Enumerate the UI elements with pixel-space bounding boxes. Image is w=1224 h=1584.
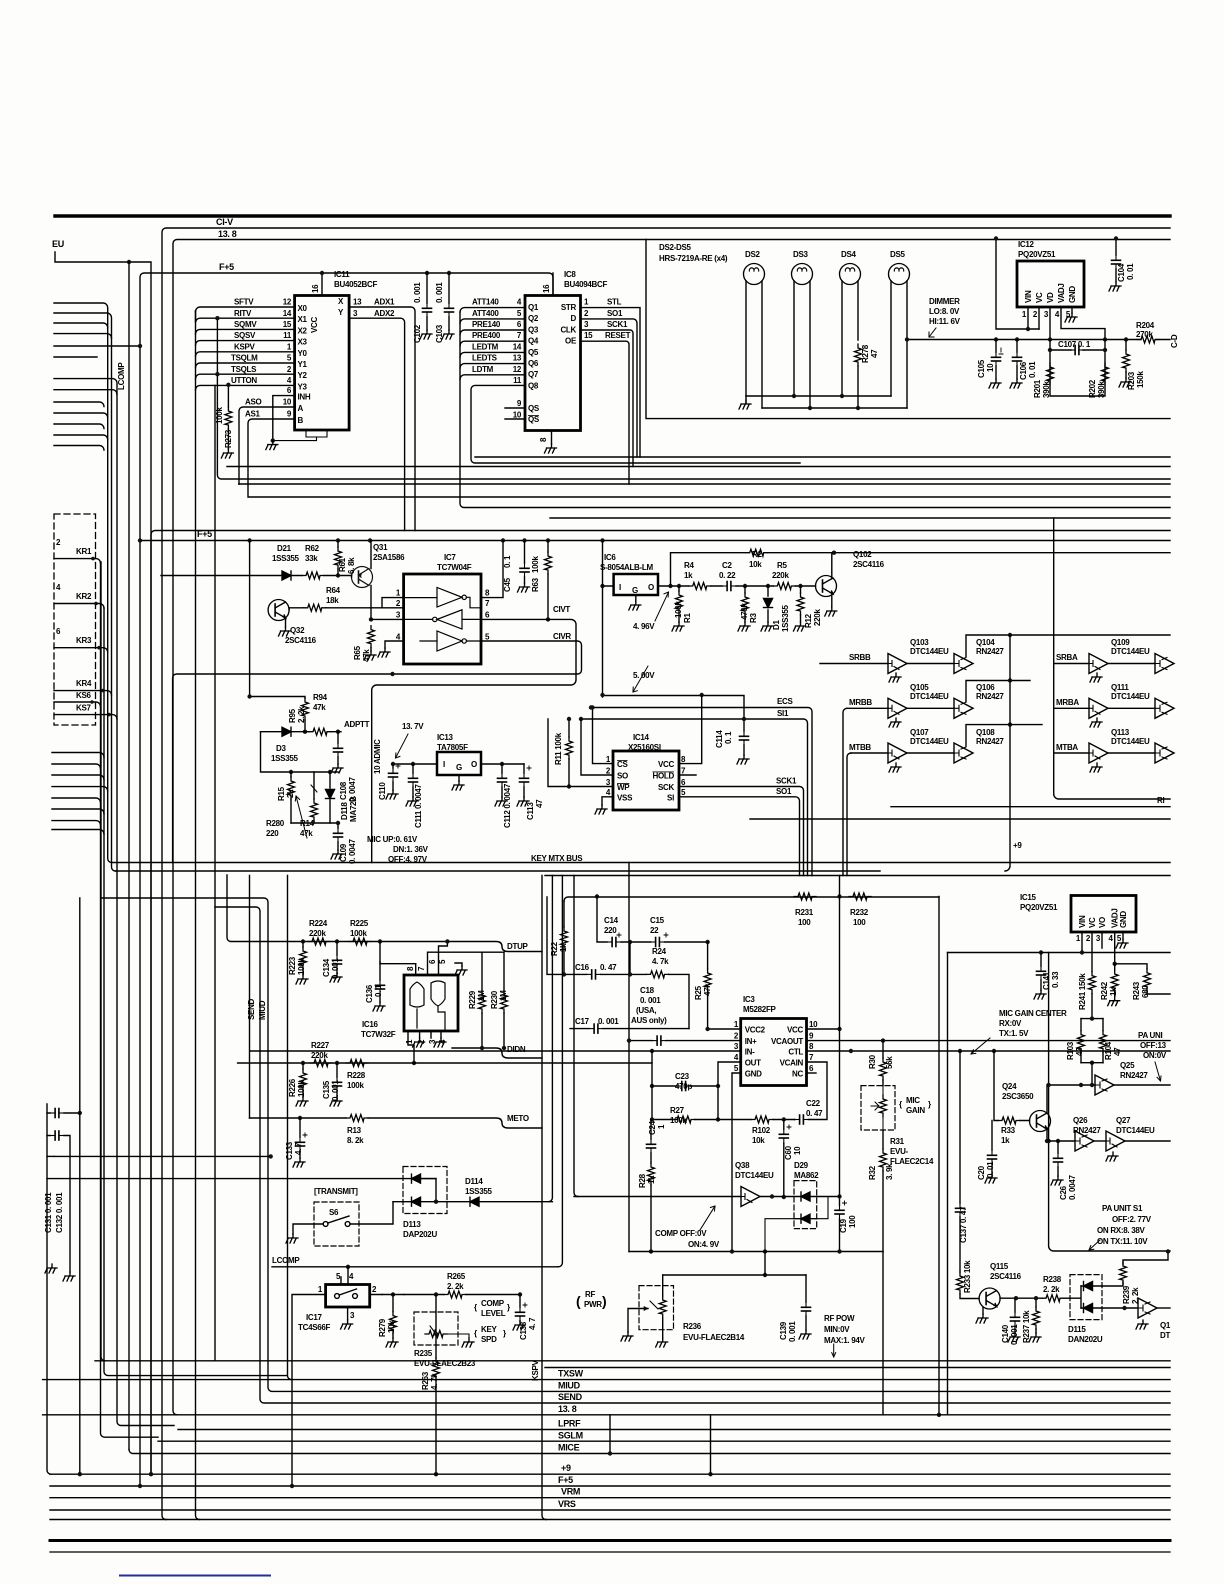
svg-text:C23: C23 <box>675 1072 690 1081</box>
IC12 labels <box>977 240 1179 398</box>
svg-text:10k: 10k <box>749 560 762 569</box>
svg-text:0. 47: 0. 47 <box>806 1109 823 1118</box>
svg-text:2SC4116: 2SC4116 <box>990 1272 1022 1281</box>
IC3 labels <box>638 995 934 1249</box>
svg-text:IC14: IC14 <box>633 733 650 742</box>
svg-text:6. 8k: 6. 8k <box>347 557 356 574</box>
svg-text:DAN202U: DAN202U <box>1068 1335 1103 1344</box>
svg-text:EVU-FLAEC2B23: EVU-FLAEC2B23 <box>414 1359 476 1368</box>
vertical SEND column <box>214 385 216 1360</box>
thick bottom line <box>50 1539 1170 1542</box>
svg-text:EVU-FLAEC2B14: EVU-FLAEC2B14 <box>683 1333 745 1342</box>
IC3 M5282FP <box>741 1019 807 1086</box>
svg-text:C24: C24 <box>648 1120 657 1135</box>
svg-text:VC: VC <box>1035 292 1044 303</box>
svg-text:FLAEC2C14: FLAEC2C14 <box>890 1157 934 1166</box>
diode D1 1SS355 <box>767 586 769 622</box>
svg-text:RX:0V: RX:0V <box>999 1019 1022 1028</box>
svg-text:R225: R225 <box>350 919 369 928</box>
wire C17 line <box>570 1028 689 1030</box>
svg-text:C18: C18 <box>640 986 655 995</box>
svg-text:AUS only): AUS only) <box>631 1016 667 1025</box>
svg-text:G: G <box>456 763 462 772</box>
svg-text:C131 0. 001: C131 0. 001 <box>44 1192 53 1233</box>
resistor R226 100k <box>300 1069 307 1091</box>
svg-text:1SS355: 1SS355 <box>272 554 300 563</box>
inverter B IC7 <box>404 610 481 629</box>
capacitor C105 10 <box>994 337 998 341</box>
svg-text:F+5: F+5 <box>558 1475 573 1485</box>
svg-text:100k: 100k <box>215 407 224 424</box>
wire DTUP line <box>227 875 542 952</box>
wire right bus lines <box>891 806 1170 808</box>
note COMP arrow <box>700 1206 715 1230</box>
svg-text:R30: R30 <box>868 1054 877 1069</box>
svg-text:GAIN: GAIN <box>906 1106 925 1115</box>
svg-text:MIUD: MIUD <box>258 1000 267 1020</box>
resistor R242 1k <box>1113 962 1117 966</box>
svg-text:1SS355: 1SS355 <box>465 1187 493 1196</box>
capacitor C104 0.01 <box>1115 239 1117 283</box>
resistor R202 390k <box>1102 363 1109 385</box>
svg-text:12: 12 <box>283 298 292 307</box>
svg-text:Q109: Q109 <box>1111 638 1130 647</box>
svg-text:1M: 1M <box>477 990 486 1001</box>
svg-text:2SC4116: 2SC4116 <box>853 560 885 569</box>
svg-text:R237 10k: R237 10k <box>1022 1310 1031 1343</box>
svg-text:(USA,: (USA, <box>636 1006 656 1015</box>
svg-text:X1: X1 <box>298 315 308 324</box>
svg-text:R25: R25 <box>694 985 703 1000</box>
svg-text:MIC: MIC <box>906 1096 920 1105</box>
resistor R65 47k <box>368 626 375 648</box>
svg-text:R65: R65 <box>353 645 362 660</box>
svg-text:ON:4. 9V: ON:4. 9V <box>688 1240 720 1249</box>
transistor Q106 RN2427 <box>907 707 954 709</box>
IC16 TC7W32F <box>404 975 458 1031</box>
resistor R224 220k <box>308 938 330 945</box>
svg-text:CLK: CLK <box>560 325 576 334</box>
IC6 S-8054ALB-LM <box>614 574 658 595</box>
svg-text:KR1: KR1 <box>76 547 92 556</box>
svg-text:DTC144EU: DTC144EU <box>735 1171 774 1180</box>
svg-text:R201: R201 <box>1033 379 1042 398</box>
ground under C102 <box>420 330 432 339</box>
svg-text:CS: CS <box>617 760 628 769</box>
svg-text:R231: R231 <box>795 908 814 917</box>
svg-text:OE: OE <box>565 337 577 346</box>
IC11 labels <box>215 270 444 448</box>
svg-text:DTC144EU: DTC144EU <box>1111 692 1150 701</box>
IC16 cluster labels <box>247 919 529 1160</box>
diode D114 1SS355 <box>470 1197 479 1206</box>
svg-text:Q107: Q107 <box>910 728 929 737</box>
svg-text:47: 47 <box>1113 1047 1122 1056</box>
svg-text:47k: 47k <box>703 983 712 996</box>
svg-text:R33: R33 <box>1001 1126 1016 1135</box>
svg-text:RN2427: RN2427 <box>976 692 1004 701</box>
capacitor C114 0.1 <box>743 719 745 755</box>
connector labels KR <box>56 538 92 713</box>
wire SGLM bus <box>158 1440 1170 1442</box>
svg-text:ECS: ECS <box>777 697 794 706</box>
svg-text:100k: 100k <box>297 958 306 975</box>
svg-text:VCC: VCC <box>787 1026 804 1035</box>
svg-text:D1: D1 <box>772 620 781 630</box>
resistor R228 100k <box>346 1060 368 1067</box>
svg-text:WP: WP <box>617 783 630 792</box>
svg-text:R226: R226 <box>288 1078 297 1097</box>
svg-text:LCOMP: LCOMP <box>117 362 126 390</box>
wire bus line 1367 <box>545 1367 1170 1369</box>
resistor R13 8.2k <box>346 1115 368 1122</box>
svg-text:TA7805F: TA7805F <box>437 743 468 752</box>
svg-text:0. 001: 0. 001 <box>331 1080 340 1101</box>
svg-text:HI:11. 6V: HI:11. 6V <box>929 317 961 326</box>
svg-text:TXSW: TXSW <box>558 1369 584 1379</box>
transistor Q109 DTC144EU <box>1054 663 1089 665</box>
svg-text:ADPTT: ADPTT <box>344 720 370 729</box>
svg-text:ADX1: ADX1 <box>374 298 395 307</box>
wire IC3 pin9 VCAOUT <box>807 1040 1171 1042</box>
svg-text:C22: C22 <box>806 1099 821 1108</box>
svg-text:ON:0V: ON:0V <box>1143 1051 1167 1060</box>
svg-text:R227: R227 <box>311 1041 330 1050</box>
svg-text:STL: STL <box>607 298 622 307</box>
svg-text:Q31: Q31 <box>373 543 388 552</box>
svg-text:DTC144EU: DTC144EU <box>910 737 949 746</box>
IC15 labels <box>890 893 1171 1345</box>
capacitor C107 0.1 <box>1050 340 1105 397</box>
svg-text:5. 00V: 5. 00V <box>633 671 655 680</box>
wire IC3 pin5 GND down <box>732 1073 741 1252</box>
wire IC3 pin10 VCC <box>807 1028 840 1030</box>
diode array D113 DAP202U <box>403 1167 447 1214</box>
svg-text:DTC144EU: DTC144EU <box>910 647 949 656</box>
svg-text:R2: R2 <box>752 550 762 559</box>
svg-text:TC7W32F: TC7W32F <box>361 1030 396 1039</box>
wire SEND bus <box>215 907 1170 1403</box>
svg-text:C16: C16 <box>575 963 590 972</box>
potentiometer R236 EVU-FLAEC2B14 <box>639 1286 674 1330</box>
svg-text:Q111: Q111 <box>1111 683 1129 692</box>
svg-text:R32: R32 <box>868 1165 877 1180</box>
svg-text:IN-: IN- <box>745 1048 755 1057</box>
wire LPRF bus <box>178 1429 1170 1431</box>
capacitor C109 0.0047 <box>337 823 339 850</box>
svg-text:MA862: MA862 <box>794 1171 819 1180</box>
svg-text:OFF:13: OFF:13 <box>1140 1041 1167 1050</box>
capacitor C130 <box>47 1112 80 1114</box>
svg-text:SO1: SO1 <box>776 787 792 796</box>
svg-text:2. 2k: 2. 2k <box>1043 1285 1060 1294</box>
svg-text:0. 1: 0. 1 <box>724 731 733 744</box>
resistor R14 47k <box>311 799 318 821</box>
svg-text:100: 100 <box>848 1215 857 1228</box>
svg-text:13. 7V: 13. 7V <box>402 722 424 731</box>
svg-text:D: D <box>571 314 577 323</box>
resistor R3 470k <box>742 593 749 615</box>
svg-text:SI: SI <box>667 793 674 802</box>
svg-text:18k: 18k <box>326 596 339 605</box>
svg-text:KR3: KR3 <box>76 636 92 645</box>
svg-text:SFTV: SFTV <box>234 298 254 307</box>
svg-text:13. 8: 13. 8 <box>558 1404 577 1414</box>
svg-text:MRBB: MRBB <box>849 698 872 707</box>
resistor R231 100 <box>794 893 816 900</box>
svg-text:MIN:0V: MIN:0V <box>824 1325 850 1334</box>
DIMMER note <box>929 297 961 326</box>
wire vcc column <box>839 876 841 1197</box>
wire DIDN line <box>452 1048 542 1058</box>
svg-text:C105: C105 <box>977 359 986 378</box>
svg-text:C136: C136 <box>365 984 374 1003</box>
resistor R15 2k <box>288 777 295 799</box>
svg-text:(: ( <box>576 1293 581 1309</box>
svg-text:C103: C103 <box>435 324 444 343</box>
svg-text:Q6: Q6 <box>528 359 539 368</box>
svg-text:{: { <box>474 1303 477 1312</box>
svg-text:R15: R15 <box>277 786 286 801</box>
svg-text:CIVT: CIVT <box>553 605 570 614</box>
wire IC3 pin3 IN- <box>250 1050 741 1052</box>
svg-text:KR2: KR2 <box>76 592 92 601</box>
svg-text:DAP202U: DAP202U <box>403 1230 437 1239</box>
svg-text:C102: C102 <box>413 324 422 343</box>
resistor R203 150k <box>1124 337 1128 341</box>
svg-text:Q2: Q2 <box>528 314 539 323</box>
wire F+5 bus bottom <box>50 1485 1170 1487</box>
svg-text:IC12: IC12 <box>1018 240 1035 249</box>
svg-text:UTTON: UTTON <box>231 376 257 385</box>
svg-text:LPRF: LPRF <box>558 1419 581 1429</box>
capacitor C24 1 <box>650 1120 652 1164</box>
svg-text:LCOMP: LCOMP <box>272 1256 300 1265</box>
svg-text:RN2427: RN2427 <box>1073 1126 1101 1135</box>
svg-text:VSS: VSS <box>617 793 633 802</box>
wire EU net <box>55 252 151 1474</box>
note 13.7V arrow <box>396 734 409 758</box>
svg-text:R236: R236 <box>683 1322 702 1331</box>
svg-text:100k: 100k <box>670 1116 687 1125</box>
wire KR3 <box>54 648 108 653</box>
svg-text:AS1: AS1 <box>245 410 261 419</box>
svg-text:Q102: Q102 <box>853 550 872 559</box>
svg-text:4. 7k: 4. 7k <box>430 1373 439 1390</box>
svg-text:4. 7k: 4. 7k <box>652 957 669 966</box>
wire bottom line 1552 <box>50 1551 1170 1553</box>
svg-text:C138: C138 <box>519 1321 528 1340</box>
capacitor C139 0.001 <box>805 1275 807 1330</box>
inverter A IC7 <box>404 588 481 608</box>
svg-text:X3: X3 <box>298 338 308 347</box>
capacitor C113 47 <box>523 764 525 797</box>
svg-text:KS7: KS7 <box>76 704 92 713</box>
wire IC6 output rail <box>658 585 816 587</box>
wire +9 bus <box>50 1473 1170 1475</box>
svg-text:R223: R223 <box>288 956 297 975</box>
ADPTT cluster labels <box>266 693 429 864</box>
svg-text:SRBA: SRBA <box>1056 653 1078 662</box>
svg-text:0. 001: 0. 001 <box>1010 1324 1019 1345</box>
note MIC GAIN CENTER arrow <box>971 1038 990 1054</box>
svg-text:R11 100k: R11 100k <box>554 732 563 765</box>
svg-text:Q103: Q103 <box>910 638 929 647</box>
wire bus RFPOW line <box>95 1360 1170 1362</box>
wire IC3 bottom rail <box>629 1251 883 1253</box>
transistor Q24 2SC3650 <box>1030 1111 1051 1132</box>
svg-text:RN2427: RN2427 <box>1120 1071 1148 1080</box>
wire F+5 top <box>151 531 1170 1475</box>
wire D21 input line <box>161 575 302 577</box>
svg-text:Q38: Q38 <box>735 1161 750 1170</box>
svg-text:RI: RI <box>1157 796 1164 805</box>
wire IC14 HOLD stub <box>679 774 696 776</box>
wire +9 column <box>1005 635 1010 871</box>
svg-text:D118: D118 <box>340 802 349 820</box>
svg-text:10k: 10k <box>387 1320 396 1333</box>
wire KR2 <box>54 604 104 609</box>
svg-text:2SC3650: 2SC3650 <box>1002 1092 1034 1101</box>
inverter C IC7 <box>420 631 481 651</box>
capacitor C132 0.001 <box>47 1155 54 1157</box>
bus lines upper-mid <box>475 456 1170 458</box>
ground IC6 <box>629 601 641 610</box>
switch S6 TRANSMIT <box>314 1202 359 1246</box>
svg-text:SCK1: SCK1 <box>607 320 628 329</box>
IC13 TA7805F <box>437 752 481 775</box>
svg-text:C140: C140 <box>1001 1324 1010 1343</box>
svg-text:R265: R265 <box>447 1272 466 1281</box>
svg-text:0. 33: 0. 33 <box>1051 971 1060 988</box>
svg-text:1k: 1k <box>1001 1136 1010 1145</box>
IC7 labels <box>396 553 572 642</box>
svg-text:1SS355: 1SS355 <box>271 754 299 763</box>
svg-text:F+5: F+5 <box>219 262 234 272</box>
svg-text:0. 001: 0. 001 <box>598 1017 619 1026</box>
svg-text:14: 14 <box>513 342 522 351</box>
transistor Q113 DTC144EU <box>1054 752 1089 754</box>
svg-text:100: 100 <box>798 918 811 927</box>
svg-text:R228: R228 <box>347 1071 366 1080</box>
svg-text:11: 11 <box>283 331 292 340</box>
capacitor C22 0.47 <box>784 1062 827 1120</box>
diode D21 1SS355 <box>282 571 291 580</box>
capacitor C141 0.33 <box>1040 953 1042 991</box>
resistor R30 56k <box>882 1041 884 1086</box>
svg-text:Q26: Q26 <box>1073 1116 1088 1125</box>
svg-text:R279: R279 <box>378 1318 387 1337</box>
R22 C14 cluster labels <box>550 908 869 1026</box>
svg-text:DS4: DS4 <box>841 250 857 259</box>
svg-text:15: 15 <box>584 331 593 340</box>
wire SRBA bus column <box>1054 518 1170 799</box>
svg-text:}: } <box>928 1100 931 1109</box>
svg-text:Q25: Q25 <box>1120 1061 1135 1070</box>
svg-text:EU: EU <box>52 239 64 249</box>
svg-text:100k: 100k <box>531 556 540 573</box>
svg-text:Q1: Q1 <box>1160 1321 1171 1330</box>
svg-text:IC13: IC13 <box>437 733 454 742</box>
svg-text:O: O <box>471 760 477 769</box>
svg-text:IN+: IN+ <box>745 1037 757 1046</box>
transistor Q27 DTC144EU <box>1106 1131 1125 1151</box>
wire right column pair <box>947 953 949 1415</box>
wire LCOMP line <box>272 1266 558 1268</box>
IC15 PQ20VZ51 <box>1071 896 1136 933</box>
capacitor C136 0.1 <box>380 942 416 964</box>
svg-text:390k: 390k <box>1097 381 1106 398</box>
wire mic control column <box>1049 953 1170 1252</box>
svg-text:IC16: IC16 <box>362 1020 379 1029</box>
svg-text:GND: GND <box>1119 911 1128 928</box>
wire mid bottom buses <box>112 862 1170 864</box>
wire 5.00V rail <box>603 696 745 720</box>
svg-text:I: I <box>443 760 445 769</box>
resistor R62 33k <box>302 572 324 579</box>
svg-text:IC8: IC8 <box>564 270 576 279</box>
ground under R273 <box>221 449 233 458</box>
svg-text:PRE400: PRE400 <box>472 331 501 340</box>
svg-text:0. 001: 0. 001 <box>435 282 444 303</box>
svg-text:220: 220 <box>604 926 617 935</box>
resistor R223 100k <box>300 947 307 969</box>
wire MIUD bus <box>101 898 1170 1391</box>
svg-text:LDTM: LDTM <box>472 365 494 374</box>
svg-text:SGLM: SGLM <box>558 1430 583 1440</box>
svg-text:220k: 220k <box>772 571 789 580</box>
svg-text:VCC2: VCC2 <box>745 1026 766 1035</box>
svg-text:R229: R229 <box>468 990 477 1009</box>
svg-text:IC15: IC15 <box>1020 893 1037 902</box>
capacitor C19 100 <box>839 1197 841 1252</box>
wire R227 line <box>238 1062 652 1064</box>
note MIC arrow <box>296 796 307 838</box>
svg-text:100k: 100k <box>297 1080 306 1097</box>
resistor R12 220k <box>797 593 804 615</box>
svg-text:DS5: DS5 <box>890 250 906 259</box>
svg-text:IC7: IC7 <box>444 553 456 562</box>
svg-text:C111 0. 0047: C111 0. 0047 <box>414 784 423 828</box>
svg-text:MAX:1. 94V: MAX:1. 94V <box>824 1336 866 1345</box>
svg-text:PA UNIT S1: PA UNIT S1 <box>1102 1204 1143 1213</box>
resistor R61 6.8k <box>335 547 342 569</box>
wire KR4 <box>54 691 112 696</box>
wire IC7 pin4 to ground <box>385 641 404 648</box>
capacitor C138 4.7 <box>519 1295 521 1322</box>
svg-text:R103: R103 <box>1066 1041 1075 1060</box>
svg-text:10: 10 <box>283 398 292 407</box>
svg-text:+9: +9 <box>561 1463 571 1473</box>
svg-text:ADX2: ADX2 <box>374 309 395 318</box>
resistor R2 10k <box>746 549 768 556</box>
svg-text:R63: R63 <box>531 577 540 592</box>
resistor R25 47k <box>704 969 711 991</box>
diode D118 MA72B <box>329 772 331 823</box>
svg-text:C107 0. 1: C107 0. 1 <box>1058 340 1091 349</box>
svg-text:1k: 1k <box>1109 987 1118 996</box>
transistor Q26 RN2427 <box>1075 1131 1094 1151</box>
svg-text:C141: C141 <box>1042 971 1051 990</box>
resistor R229 1M <box>481 952 483 1048</box>
wire 13.7V rail <box>393 763 524 765</box>
svg-text:SQMV: SQMV <box>234 320 257 329</box>
capacitor C131 0.001 <box>47 1136 70 1273</box>
svg-text:14: 14 <box>283 309 292 318</box>
svg-text:C113: C113 <box>526 802 535 820</box>
svg-text:C60: C60 <box>784 1145 793 1160</box>
svg-text:R22: R22 <box>550 941 559 956</box>
